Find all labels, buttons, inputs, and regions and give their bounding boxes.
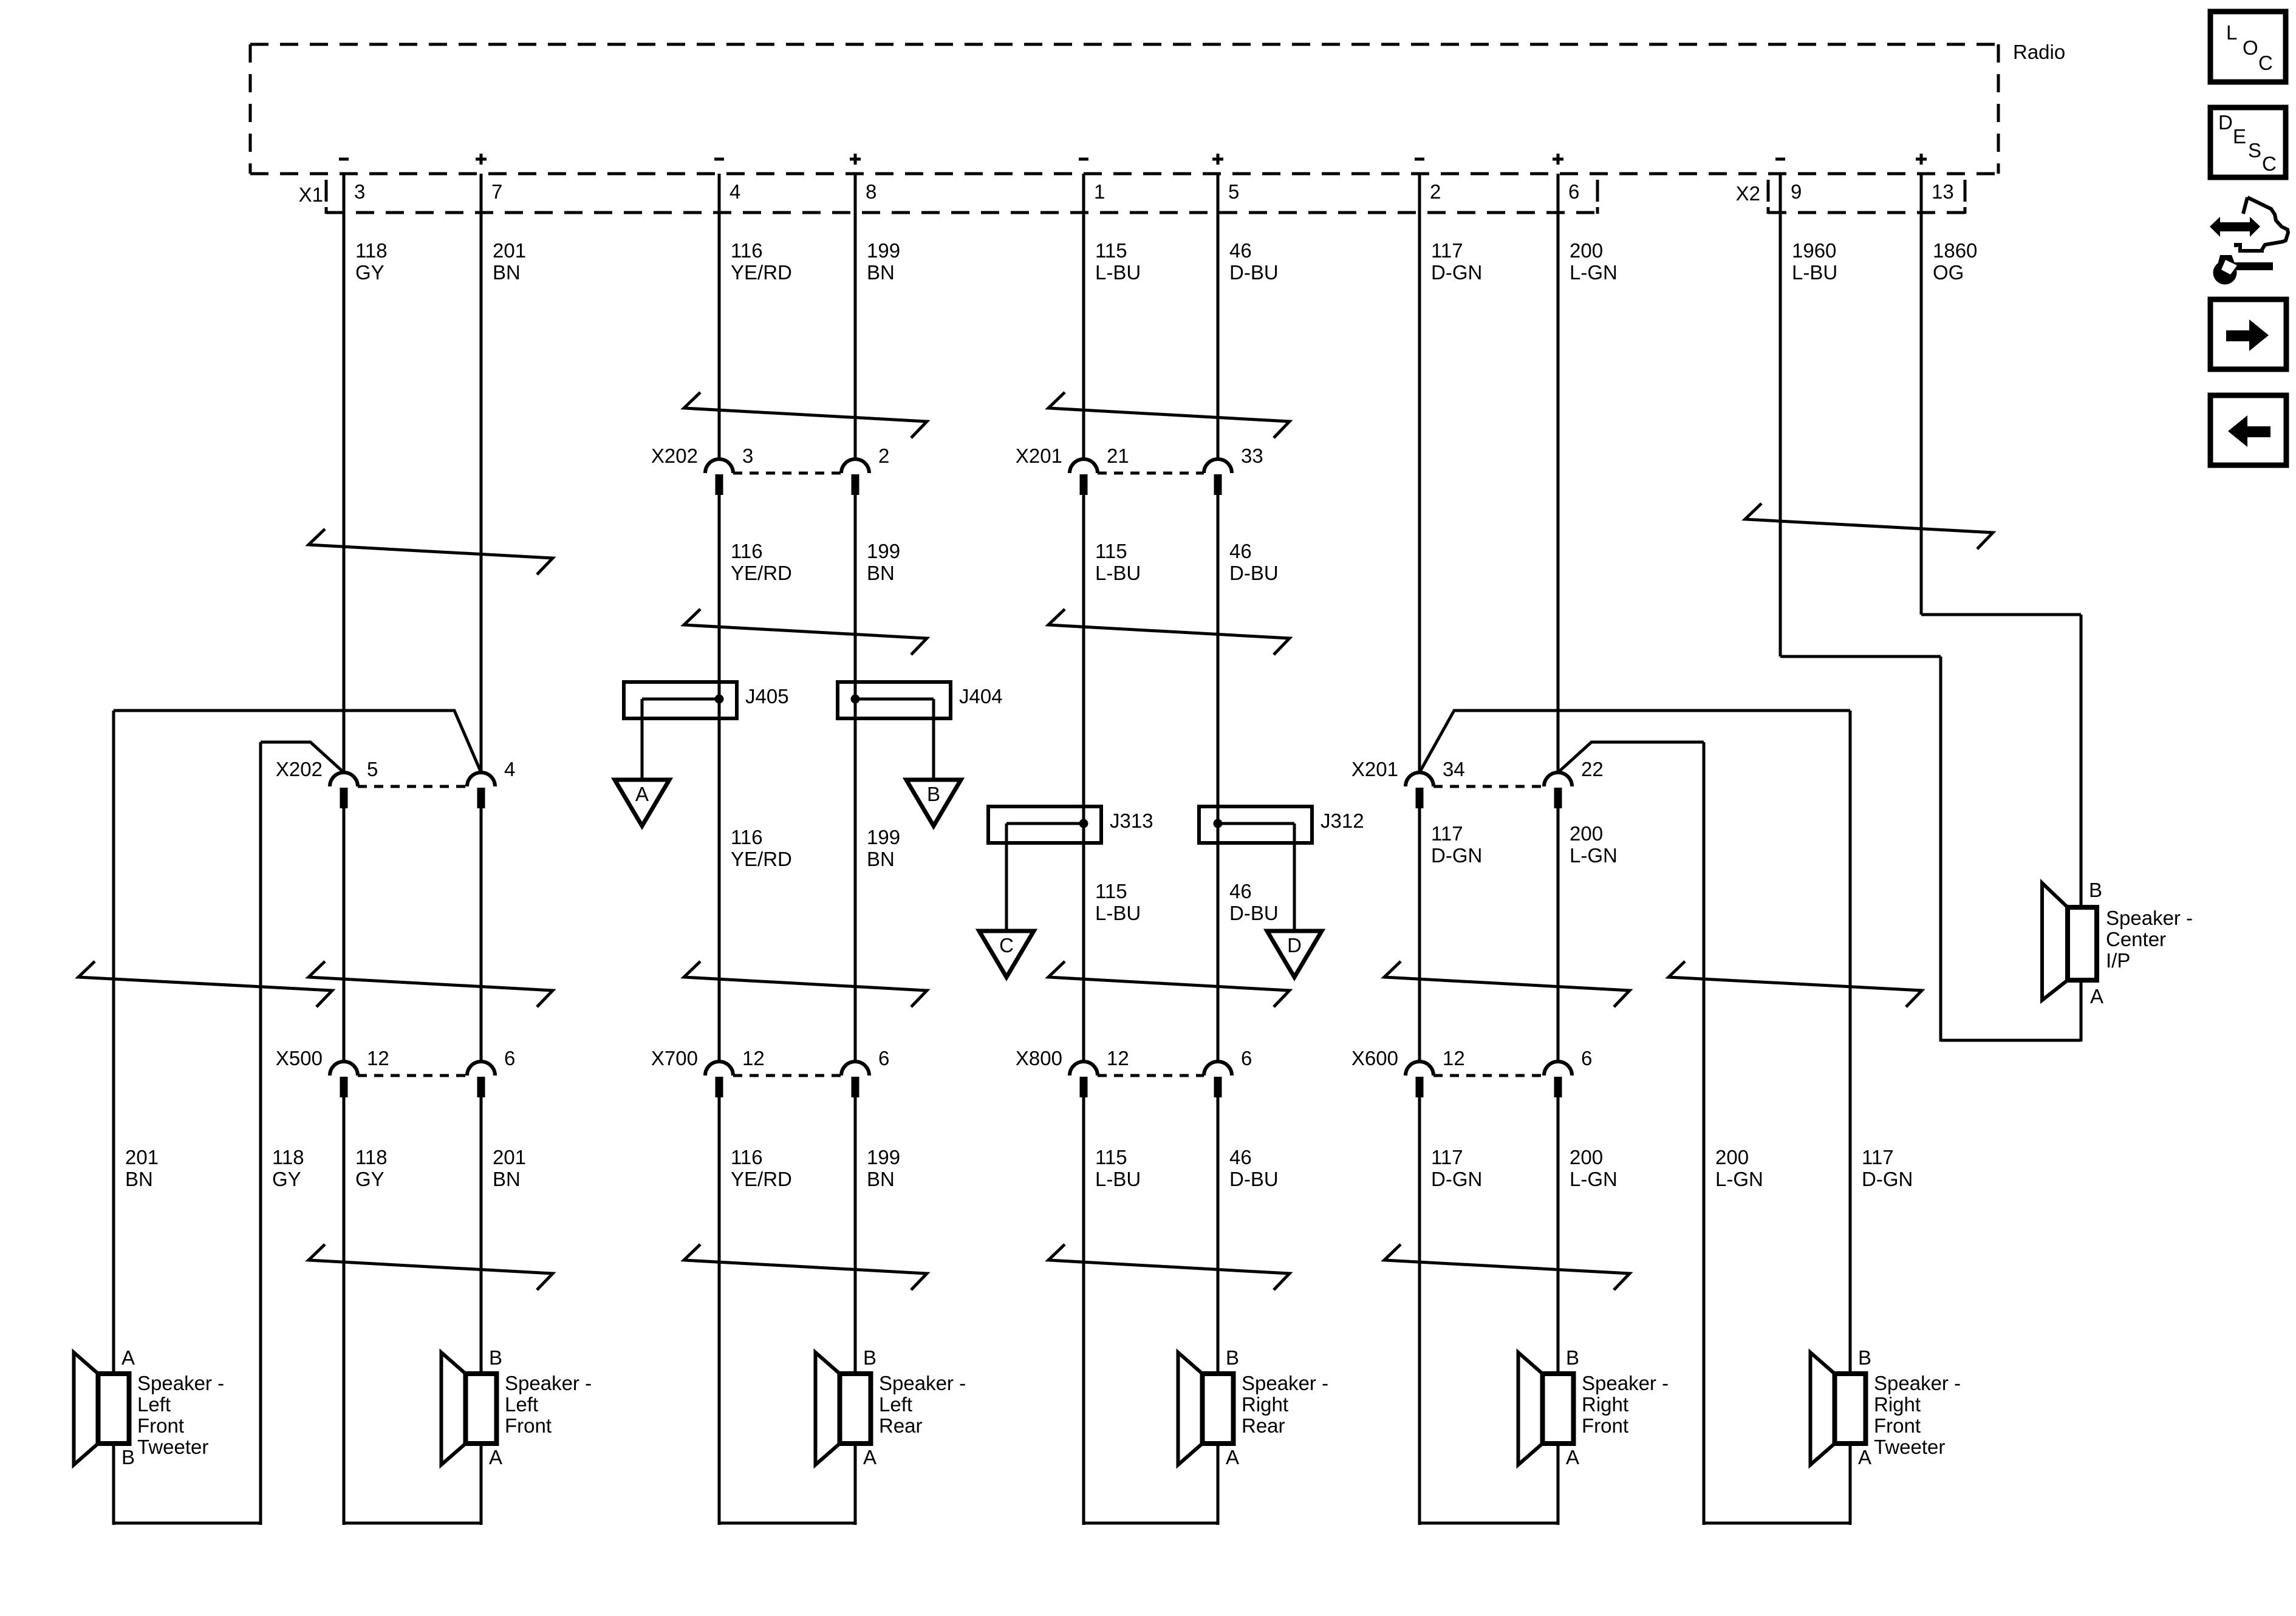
svg-text:D: D bbox=[2218, 111, 2233, 134]
connector X202 pin 2 bbox=[841, 445, 889, 495]
svg-text:8: 8 bbox=[866, 180, 876, 203]
svg-text:A: A bbox=[1566, 1446, 1579, 1468]
off-page reference triangle C bbox=[979, 931, 1034, 977]
wire 201 BN (left tweeter A) bbox=[112, 711, 115, 1374]
svg-text:A: A bbox=[1858, 1446, 1871, 1468]
LOC reference box bbox=[2210, 12, 2286, 82]
svg-text:4: 4 bbox=[729, 180, 740, 203]
svg-text:115: 115 bbox=[1095, 1146, 1127, 1168]
speaker Center I/P bbox=[2042, 879, 2193, 1007]
svg-text:199: 199 bbox=[867, 540, 900, 562]
wire 200 L-GN (right tweeter second run) bbox=[1558, 742, 1704, 772]
svg-text:12: 12 bbox=[367, 1047, 389, 1069]
svg-text:X201: X201 bbox=[1351, 758, 1398, 780]
label Radio bbox=[2013, 41, 2065, 63]
wire 116 YE/RD (X202-3 through J405 to X700-12) bbox=[718, 495, 721, 1062]
svg-text:A: A bbox=[863, 1446, 876, 1468]
svg-text:118: 118 bbox=[272, 1146, 304, 1168]
svg-text:L-BU: L-BU bbox=[1095, 261, 1141, 284]
pin 8 (+) of radio connector bbox=[850, 154, 876, 203]
svg-text:6: 6 bbox=[1568, 180, 1579, 203]
speaker Left Front bbox=[442, 1346, 592, 1468]
svg-text:12: 12 bbox=[1443, 1047, 1465, 1069]
break (wire continues) 115/46 mid bbox=[1048, 961, 1290, 1007]
wire splice J405 branch to A bbox=[641, 699, 644, 780]
pin 9 (-) of radio connector bbox=[1775, 159, 1802, 203]
svg-text:L-GN: L-GN bbox=[1570, 1168, 1618, 1190]
connector X500 pin 6 bbox=[467, 1047, 515, 1097]
svg-text:L-BU: L-BU bbox=[1095, 562, 1141, 584]
svg-text:L-BU: L-BU bbox=[1095, 902, 1141, 924]
svg-text:YE/RD: YE/RD bbox=[731, 1168, 792, 1190]
label X500 bbox=[276, 1047, 323, 1069]
svg-text:Front: Front bbox=[1582, 1414, 1628, 1437]
label 201 BN bbox=[493, 239, 526, 284]
svg-text:YE/RD: YE/RD bbox=[731, 261, 792, 284]
wire right rear speaker bottom loop bbox=[1084, 1522, 1218, 1525]
forward arrow box bbox=[2210, 299, 2286, 369]
label 46 D-BU bbox=[1229, 239, 1279, 284]
svg-text:L: L bbox=[2226, 21, 2237, 44]
svg-text:46: 46 bbox=[1229, 1146, 1252, 1168]
label 199 BN bbox=[867, 826, 900, 870]
wire 117 D-GN (X600-12 loop) bbox=[1418, 1097, 1421, 1525]
connector X2 strip bbox=[1736, 180, 1965, 214]
label 199 BN bbox=[867, 239, 900, 284]
speaker Right Rear bbox=[1178, 1346, 1329, 1468]
svg-text:GY: GY bbox=[272, 1168, 301, 1190]
connector-view icon (double arrow with connector outline) bbox=[2210, 197, 2288, 251]
label X202 bbox=[651, 445, 698, 467]
pin 1 (-) of radio connector bbox=[1079, 159, 1105, 203]
svg-text:2: 2 bbox=[1430, 180, 1441, 203]
radio box (Radio) bbox=[250, 44, 1998, 174]
svg-text:B: B bbox=[121, 1446, 135, 1468]
svg-text:S: S bbox=[2248, 139, 2261, 162]
svg-text:115: 115 bbox=[1095, 540, 1127, 562]
label 46 D-BU bbox=[1229, 880, 1279, 924]
svg-text:GY: GY bbox=[355, 1168, 384, 1190]
svg-text:L-BU: L-BU bbox=[1792, 261, 1837, 284]
pin 4 (-) of radio connector bbox=[714, 159, 740, 203]
svg-text:D-GN: D-GN bbox=[1431, 261, 1482, 284]
wire 46 D-BU (X800-6 to speaker B) bbox=[1217, 1097, 1220, 1374]
break (wire continues) 116/199 bbox=[684, 392, 927, 438]
svg-text:D-BU: D-BU bbox=[1229, 1168, 1279, 1190]
svg-text:4: 4 bbox=[504, 758, 515, 780]
label 200 L-GN bbox=[1570, 1146, 1618, 1190]
svg-text:I/P: I/P bbox=[2106, 949, 2130, 972]
svg-text:201: 201 bbox=[493, 1146, 526, 1168]
svg-text:Center: Center bbox=[2106, 928, 2166, 950]
svg-text:OG: OG bbox=[1933, 261, 1964, 284]
svg-text:J404: J404 bbox=[959, 685, 1003, 707]
svg-text:12: 12 bbox=[742, 1047, 765, 1069]
svg-text:199: 199 bbox=[867, 1146, 900, 1168]
break (wire continues) 115/46 low bbox=[1048, 1244, 1290, 1290]
speaker Right Front Tweeter bbox=[1811, 1346, 1961, 1468]
label 200 L-GN bbox=[1570, 822, 1618, 867]
svg-text:200: 200 bbox=[1570, 1146, 1603, 1168]
svg-text:BN: BN bbox=[125, 1168, 153, 1190]
wire 200 L-GN (X600-6 to speaker B) bbox=[1557, 1097, 1560, 1374]
svg-text:D-BU: D-BU bbox=[1229, 261, 1279, 284]
svg-text:L-GN: L-GN bbox=[1570, 844, 1618, 867]
wire 200 L-GN (speaker A drop) bbox=[1557, 1444, 1560, 1525]
label 116 YE/RD bbox=[731, 1146, 792, 1190]
svg-text:C: C bbox=[2258, 52, 2273, 74]
svg-text:J405: J405 bbox=[745, 685, 789, 707]
svg-text:6: 6 bbox=[1581, 1047, 1592, 1069]
svg-text:7: 7 bbox=[491, 180, 502, 203]
connector X1 strip bbox=[299, 180, 1597, 214]
break (wire continues) 118/201 mid bbox=[309, 961, 553, 1007]
wire splice J312 branch to D bbox=[1293, 823, 1296, 931]
svg-text:5: 5 bbox=[367, 758, 378, 780]
svg-text:200: 200 bbox=[1570, 239, 1603, 262]
svg-text:Speaker -: Speaker - bbox=[1242, 1372, 1328, 1394]
wire 118 GY (left tweeter loop) bbox=[259, 742, 262, 1525]
svg-text:3: 3 bbox=[742, 445, 753, 467]
svg-text:X500: X500 bbox=[276, 1047, 323, 1069]
svg-text:D-GN: D-GN bbox=[1431, 1168, 1482, 1190]
label 1860 OG bbox=[1933, 239, 1977, 284]
svg-text:C: C bbox=[2262, 152, 2277, 175]
connector X202 pin 4 bbox=[467, 758, 515, 808]
svg-text:116: 116 bbox=[731, 540, 763, 562]
svg-text:BN: BN bbox=[493, 261, 521, 284]
wire 200 L-GN (right tweeter A loop) bbox=[1703, 742, 1706, 1525]
svg-text:A: A bbox=[635, 783, 649, 805]
pin 6 (+) of radio connector bbox=[1553, 154, 1579, 203]
wire 118 GY (radio X1-3 to X202-5) bbox=[343, 174, 346, 772]
label 115 L-BU bbox=[1095, 1146, 1141, 1190]
connector X700 pin 12 bbox=[705, 1047, 765, 1097]
svg-text:116: 116 bbox=[731, 1146, 763, 1168]
svg-text:L-BU: L-BU bbox=[1095, 1168, 1141, 1190]
off-page reference triangle A bbox=[615, 780, 669, 826]
svg-text:Radio: Radio bbox=[2013, 41, 2065, 63]
wire 199 BN (radio X1-8 to X202-2) bbox=[854, 174, 857, 459]
svg-text:Rear: Rear bbox=[879, 1414, 923, 1437]
svg-text:E: E bbox=[2233, 125, 2246, 148]
svg-text:6: 6 bbox=[504, 1047, 515, 1069]
connector X600 pin 6 bbox=[1544, 1047, 1592, 1097]
svg-text:9: 9 bbox=[1791, 180, 1802, 203]
svg-text:Tweeter: Tweeter bbox=[137, 1436, 208, 1458]
label X600 bbox=[1351, 1047, 1398, 1069]
svg-text:Speaker -: Speaker - bbox=[137, 1372, 224, 1394]
wire 117 D-GN (right tweeter top run) bbox=[1420, 711, 1850, 772]
svg-text:B: B bbox=[863, 1346, 876, 1369]
svg-text:A: A bbox=[2090, 985, 2103, 1007]
wire 200 L-GN (radio X1-6 to X201-22) bbox=[1557, 174, 1560, 772]
connector X500 mating dashed line bbox=[358, 1074, 467, 1077]
svg-text:X201: X201 bbox=[1016, 445, 1062, 467]
svg-text:117: 117 bbox=[1431, 1146, 1463, 1168]
wire 117 D-GN (to right tweeter B) bbox=[1849, 711, 1852, 1374]
wire 1860 OG (horizontal to center speaker B) bbox=[1921, 613, 2081, 616]
svg-text:BN: BN bbox=[867, 261, 895, 284]
svg-text:Speaker -: Speaker - bbox=[879, 1372, 966, 1394]
wire 116 YE/RD (X700-12 loop) bbox=[718, 1097, 721, 1525]
break (wire continues) 118/201 bbox=[309, 529, 553, 574]
svg-text:2: 2 bbox=[878, 445, 889, 467]
wire 1860 OG (center speaker B drop) bbox=[2080, 615, 2083, 907]
pin 2 (-) of radio connector bbox=[1415, 159, 1441, 203]
svg-text:B: B bbox=[927, 783, 940, 805]
break (wire continues) 116/199 lower bbox=[684, 609, 927, 655]
svg-text:YE/RD: YE/RD bbox=[731, 848, 792, 870]
svg-text:BN: BN bbox=[867, 562, 895, 584]
label X700 bbox=[651, 1047, 698, 1069]
pin 13 (+) of radio connector bbox=[1916, 154, 1954, 203]
connector X202 mating dashed line bbox=[358, 785, 467, 788]
connector X201 pin 33 bbox=[1204, 445, 1263, 495]
back arrow box bbox=[2210, 395, 2286, 465]
svg-text:X202: X202 bbox=[651, 445, 698, 467]
svg-text:1: 1 bbox=[1094, 180, 1105, 203]
svg-text:BN: BN bbox=[867, 1168, 895, 1190]
svg-text:B: B bbox=[1566, 1346, 1579, 1369]
svg-text:Front: Front bbox=[505, 1414, 552, 1437]
svg-text:Right: Right bbox=[1874, 1393, 1921, 1416]
connector X202 pin 5 bbox=[330, 758, 378, 808]
connector X800 pin 6 bbox=[1204, 1047, 1252, 1097]
svg-text:Speaker -: Speaker - bbox=[1874, 1372, 1961, 1394]
connector X202 mating dashed line bbox=[733, 472, 841, 475]
svg-text:X1: X1 bbox=[299, 183, 323, 206]
svg-text:D-BU: D-BU bbox=[1229, 902, 1279, 924]
label 116 YE/RD bbox=[731, 239, 792, 284]
off-page reference triangle D bbox=[1267, 931, 1322, 977]
splice J404 bbox=[838, 682, 1003, 718]
svg-text:J313: J313 bbox=[1110, 810, 1153, 832]
break (wire continues) 116/199 low bbox=[684, 1244, 927, 1290]
svg-text:B: B bbox=[2089, 879, 2102, 901]
svg-text:GY: GY bbox=[355, 261, 384, 284]
wire 117 D-GN (X201-34 to X600-12) bbox=[1418, 808, 1421, 1062]
svg-text:Front: Front bbox=[1874, 1414, 1921, 1437]
svg-text:199: 199 bbox=[867, 826, 900, 848]
label 118 GY bbox=[272, 1146, 304, 1190]
svg-text:200: 200 bbox=[1715, 1146, 1749, 1168]
svg-text:33: 33 bbox=[1241, 445, 1263, 467]
svg-text:X700: X700 bbox=[651, 1047, 698, 1069]
connector X700 mating dashed line bbox=[733, 1074, 841, 1077]
svg-text:200: 200 bbox=[1570, 822, 1603, 845]
svg-text:B: B bbox=[1226, 1346, 1239, 1369]
svg-text:Left: Left bbox=[505, 1393, 538, 1416]
pin 7 (+) of radio connector bbox=[476, 154, 502, 203]
svg-text:46: 46 bbox=[1229, 239, 1252, 262]
wire 201 BN (left tweeter top run) bbox=[114, 711, 481, 772]
label X202 bbox=[276, 758, 323, 780]
svg-text:A: A bbox=[121, 1346, 135, 1369]
svg-text:D-BU: D-BU bbox=[1229, 562, 1279, 584]
wire 46 D-BU (radio X1-5 to X201-33) bbox=[1217, 174, 1220, 459]
wire 201 BN (radio X1-7 to X202-4) bbox=[480, 174, 483, 772]
break (wire continues) 115/46 bbox=[1048, 392, 1290, 438]
svg-text:Left: Left bbox=[879, 1393, 912, 1416]
svg-text:X600: X600 bbox=[1351, 1047, 1398, 1069]
svg-text:1860: 1860 bbox=[1933, 239, 1977, 262]
connector X202 pin 3 bbox=[705, 445, 753, 495]
break (wire continues) 117/200 low bbox=[1384, 1244, 1630, 1290]
break (wire continues) 118/201 low bbox=[309, 1244, 553, 1290]
connector X500 pin 12 bbox=[330, 1047, 389, 1097]
splice J405 bbox=[624, 682, 789, 718]
label 199 BN bbox=[867, 540, 900, 584]
label 199 BN bbox=[867, 1146, 900, 1190]
connector X201 pin 22 bbox=[1544, 758, 1604, 808]
svg-text:199: 199 bbox=[867, 239, 900, 262]
svg-text:118: 118 bbox=[355, 1146, 388, 1168]
label X201 bbox=[1351, 758, 1398, 780]
label 116 YE/RD bbox=[731, 826, 792, 870]
svg-text:115: 115 bbox=[1095, 880, 1127, 902]
svg-text:X2: X2 bbox=[1736, 182, 1760, 205]
svg-text:1960: 1960 bbox=[1792, 239, 1836, 262]
speaker Right Front bbox=[1519, 1346, 1669, 1468]
pin 3 (-) of radio connector bbox=[339, 159, 365, 203]
label 117 D-GN bbox=[1431, 239, 1482, 284]
svg-text:X800: X800 bbox=[1016, 1047, 1062, 1069]
svg-text:BN: BN bbox=[493, 1168, 521, 1190]
svg-text:D: D bbox=[1287, 934, 1302, 956]
wire 115 L-BU (X201-21 through J313 to X800-12) bbox=[1082, 495, 1085, 1062]
label 1960 L-BU bbox=[1792, 239, 1837, 284]
label 117 D-GN bbox=[1431, 822, 1482, 867]
connector X600 pin 12 bbox=[1406, 1047, 1465, 1097]
connector X201 pin 21 bbox=[1070, 445, 1129, 495]
wire 118 GY (X202-5 to X500-12) bbox=[343, 808, 346, 1062]
label 115 L-BU bbox=[1095, 880, 1141, 924]
svg-text:46: 46 bbox=[1229, 540, 1252, 562]
wire 118 GY (X500-12 down-left loop) bbox=[343, 1097, 346, 1525]
wire 201 BN (X202-4 to X500-6) bbox=[480, 808, 483, 1062]
svg-text:Tweeter: Tweeter bbox=[1874, 1436, 1945, 1458]
break (wire continues) 115/46 lower bbox=[1048, 609, 1290, 655]
svg-text:Speaker -: Speaker - bbox=[505, 1372, 592, 1394]
connector X600 mating dashed line bbox=[1433, 1074, 1544, 1077]
connector X201 pin 34 bbox=[1406, 758, 1465, 808]
svg-text:Speaker -: Speaker - bbox=[1582, 1372, 1669, 1394]
svg-text:D-GN: D-GN bbox=[1431, 844, 1482, 867]
wire 199 BN (X700-6 to speaker B) bbox=[854, 1097, 857, 1374]
svg-text:46: 46 bbox=[1229, 880, 1252, 902]
wire 201 BN (left tweeter B drop) bbox=[112, 1444, 115, 1525]
label 118 GY bbox=[355, 239, 388, 284]
label 46 D-BU bbox=[1229, 1146, 1279, 1190]
wire 115 L-BU (radio X1-1 to X201-21) bbox=[1082, 174, 1085, 459]
svg-text:L-GN: L-GN bbox=[1715, 1168, 1763, 1190]
svg-text:B: B bbox=[489, 1346, 502, 1369]
speaker Left Front Tweeter bbox=[74, 1346, 225, 1468]
break (wire continues) 1960/1860 bbox=[1745, 503, 1993, 549]
svg-text:A: A bbox=[1226, 1446, 1239, 1468]
wire left tweeter bottom loop bbox=[114, 1522, 261, 1525]
splice J312 bbox=[1199, 806, 1364, 843]
wire 117 D-GN (radio X1-2 to X201-34) bbox=[1418, 174, 1421, 772]
connector X201 mating dashed line bbox=[1098, 472, 1204, 475]
connector X800 pin 12 bbox=[1070, 1047, 1129, 1097]
wire 200 L-GN (X201-22 to X600-6) bbox=[1557, 808, 1560, 1062]
wire 199 BN (X202-2 through J404 to X700-6) bbox=[854, 495, 857, 1062]
svg-text:A: A bbox=[489, 1446, 502, 1468]
svg-text:117: 117 bbox=[1862, 1146, 1894, 1168]
svg-text:B: B bbox=[1858, 1346, 1871, 1369]
connector X800 mating dashed line bbox=[1098, 1074, 1204, 1077]
splice J313 bbox=[988, 806, 1153, 843]
svg-text:Right: Right bbox=[1242, 1393, 1288, 1416]
wire right tweeter bottom loop bbox=[1704, 1522, 1850, 1525]
svg-text:115: 115 bbox=[1095, 239, 1127, 262]
label 118 GY bbox=[355, 1146, 388, 1190]
svg-text:D-GN: D-GN bbox=[1862, 1168, 1913, 1190]
wire left front speaker bottom loop bbox=[344, 1522, 481, 1525]
label 200 L-GN bbox=[1715, 1146, 1763, 1190]
label X800 bbox=[1016, 1047, 1062, 1069]
wire splice J313 branch to C bbox=[1005, 823, 1008, 931]
break (wire continues) right tweeter pair bbox=[1669, 961, 1922, 1007]
break (wire continues) 117/200 mid bbox=[1384, 961, 1630, 1007]
wire 199 BN (speaker A drop) bbox=[854, 1444, 857, 1525]
svg-text:Speaker -: Speaker - bbox=[2106, 907, 2193, 929]
svg-text:YE/RD: YE/RD bbox=[731, 562, 792, 584]
break (wire continues) tweeter pair bbox=[78, 961, 332, 1007]
wire center speaker A bottom run bbox=[1941, 1039, 2081, 1042]
wire 201 BN (X500-6 to speaker B) bbox=[480, 1097, 483, 1374]
svg-text:Rear: Rear bbox=[1242, 1414, 1285, 1437]
svg-text:117: 117 bbox=[1431, 239, 1463, 262]
DESC reference box bbox=[2210, 107, 2286, 177]
svg-text:117: 117 bbox=[1431, 822, 1463, 845]
label 201 BN bbox=[493, 1146, 526, 1190]
wire 116 YE/RD (radio X1-4 to X202-3) bbox=[718, 174, 721, 459]
label 115 L-BU bbox=[1095, 540, 1141, 584]
connector X700 pin 6 bbox=[841, 1047, 889, 1097]
svg-text:Right: Right bbox=[1582, 1393, 1628, 1416]
svg-text:Front: Front bbox=[137, 1414, 184, 1437]
label 117 D-GN bbox=[1862, 1146, 1913, 1190]
svg-text:O: O bbox=[2243, 36, 2258, 59]
svg-text:21: 21 bbox=[1107, 445, 1129, 467]
wire 118 GY (left tweeter second run) bbox=[261, 742, 344, 772]
svg-text:201: 201 bbox=[493, 239, 526, 262]
svg-text:C: C bbox=[999, 934, 1014, 956]
wire center speaker A drop bbox=[2080, 980, 2083, 1042]
wire right front speaker bottom loop bbox=[1420, 1522, 1558, 1525]
wire 46 D-BU (speaker A drop) bbox=[1217, 1444, 1220, 1525]
svg-text:12: 12 bbox=[1107, 1047, 1129, 1069]
svg-text:J312: J312 bbox=[1321, 810, 1364, 832]
off-page reference triangle B bbox=[906, 780, 961, 826]
connector X201 mating dashed line bbox=[1433, 785, 1544, 788]
label 116 YE/RD bbox=[731, 540, 792, 584]
wire 201 BN (speaker A drop) bbox=[480, 1444, 483, 1525]
wire 46 D-BU (X201-33 through J312 to X800-6) bbox=[1217, 495, 1220, 1062]
wrench icon bbox=[2213, 255, 2274, 285]
svg-text:3: 3 bbox=[354, 180, 365, 203]
svg-text:X202: X202 bbox=[276, 758, 323, 780]
wire 1960 L-BU (radio X2-9) bbox=[1779, 174, 1782, 656]
svg-text:201: 201 bbox=[125, 1146, 159, 1168]
svg-text:6: 6 bbox=[878, 1047, 889, 1069]
svg-text:5: 5 bbox=[1228, 180, 1239, 203]
label 46 D-BU bbox=[1229, 540, 1279, 584]
wire splice J404 branch to B bbox=[932, 699, 935, 780]
